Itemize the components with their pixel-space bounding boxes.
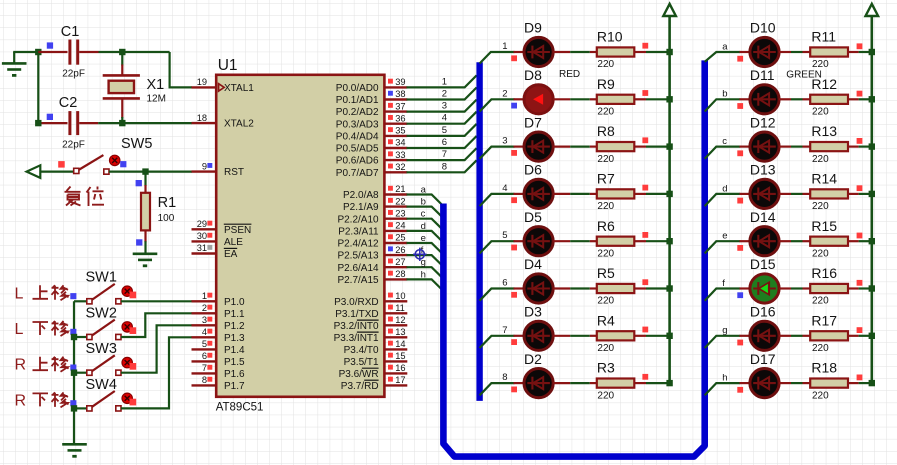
wire <box>634 240 669 242</box>
LED D7 <box>524 114 553 161</box>
svg-text:f: f <box>722 278 725 289</box>
resistor R14 220 <box>810 171 848 213</box>
svg-text:EA: EA <box>224 249 238 260</box>
pin 12 P3.2 <box>384 315 407 325</box>
node label 4 <box>502 183 507 194</box>
LED D5 <box>524 209 553 256</box>
node marker SW3 <box>70 365 76 371</box>
svg-text:220: 220 <box>812 201 829 212</box>
svg-text:8: 8 <box>442 161 447 172</box>
wire power rail left <box>668 16 671 383</box>
svg-text:a: a <box>421 185 427 196</box>
wire <box>121 337 192 408</box>
resistor R15 220 <box>810 218 848 260</box>
svg-text:R8: R8 <box>597 123 615 139</box>
svg-text:D12: D12 <box>750 114 776 130</box>
svg-text:c: c <box>722 136 727 147</box>
node marker D15 <box>737 292 743 298</box>
wire net h (P2.7) <box>407 279 444 291</box>
svg-text:13: 13 <box>395 327 405 337</box>
node junction rail-left <box>666 191 672 197</box>
pin 9 RST <box>192 161 217 171</box>
wire <box>514 240 525 242</box>
svg-text:C2: C2 <box>59 95 78 111</box>
node label 2 <box>502 88 507 99</box>
node junction rail-right <box>869 49 875 55</box>
node label g <box>722 325 727 336</box>
svg-text:e: e <box>722 231 727 242</box>
svg-text:4: 4 <box>202 327 207 337</box>
wire <box>514 51 525 53</box>
capacitor C1 <box>38 24 98 79</box>
pin 18 XTAL2 <box>192 113 217 123</box>
pin 14 P3.4 <box>384 339 407 349</box>
svg-text:c: c <box>421 209 426 220</box>
node junction rail-right <box>869 285 875 291</box>
svg-text:D15: D15 <box>750 256 776 272</box>
svg-text:35: 35 <box>395 126 405 136</box>
svg-text:30: 30 <box>197 231 207 241</box>
svg-text:C1: C1 <box>61 24 80 40</box>
pin 10 P3.0 <box>384 291 407 301</box>
pin 33 P0.6/AD6 <box>384 150 407 160</box>
resistor R9 220 <box>597 76 635 118</box>
svg-text:D3: D3 <box>524 304 542 320</box>
wire <box>779 98 810 100</box>
node label d <box>722 183 727 194</box>
svg-text:D16: D16 <box>750 304 776 320</box>
svg-text:P1.4: P1.4 <box>224 345 245 356</box>
wire <box>98 122 192 124</box>
node label c <box>722 136 727 147</box>
svg-text:29: 29 <box>197 219 207 229</box>
pin 8 P1.7 <box>192 375 217 385</box>
wire bus exit 7 <box>480 336 515 348</box>
node marker R10 <box>642 43 648 49</box>
svg-text:X1: X1 <box>147 77 165 93</box>
wire <box>99 52 193 87</box>
wire net d (P2.3) <box>407 231 444 243</box>
svg-text:32: 32 <box>395 162 405 172</box>
LED D3 <box>524 304 553 351</box>
svg-text:21: 21 <box>395 184 405 194</box>
label L up-move <box>15 285 69 302</box>
node label 7 <box>502 325 507 336</box>
svg-text:b: b <box>421 197 426 208</box>
resistor R6 220 <box>597 218 635 260</box>
wire <box>848 287 872 289</box>
svg-text:1: 1 <box>442 76 447 87</box>
svg-text:34: 34 <box>395 138 405 148</box>
LED D10 <box>750 20 779 67</box>
svg-text:R13: R13 <box>811 123 837 139</box>
svg-text:220: 220 <box>812 154 829 165</box>
resistor R12 220 <box>810 76 848 118</box>
wire bus exit e <box>705 241 741 253</box>
svg-text:R3: R3 <box>597 360 615 376</box>
pin 28 P2.7/A15 <box>384 269 407 279</box>
wire <box>848 382 872 384</box>
wire <box>740 98 751 100</box>
svg-text:28: 28 <box>395 269 405 279</box>
svg-text:RED: RED <box>559 69 580 80</box>
node marker D14 <box>737 245 743 251</box>
wire net 6 (P0.5) <box>407 136 477 148</box>
wire net 3 (P0.2) <box>407 100 477 112</box>
svg-text:18: 18 <box>197 113 207 123</box>
svg-text:R15: R15 <box>811 218 837 234</box>
svg-text:220: 220 <box>597 59 614 70</box>
svg-text:38: 38 <box>395 89 405 99</box>
node label 4 <box>442 113 447 124</box>
svg-text:d: d <box>421 221 426 232</box>
svg-text:P2.7/A15: P2.7/A15 <box>337 275 379 286</box>
svg-text:U1: U1 <box>218 57 238 74</box>
svg-text:2: 2 <box>502 88 507 99</box>
svg-text:5: 5 <box>202 339 207 349</box>
svg-text:9: 9 <box>202 161 207 171</box>
wire bus exit 5 <box>480 241 515 253</box>
resistor R4 220 <box>597 312 635 354</box>
svg-text:P2.2/A10: P2.2/A10 <box>337 214 379 225</box>
node marker R8 <box>642 137 648 143</box>
node junction rail-left <box>666 96 672 102</box>
LED D8 <box>524 67 553 114</box>
node junction C1-left <box>35 42 53 55</box>
node marker R5 <box>642 279 648 285</box>
op-amp U1 AT89C51 body <box>216 57 385 414</box>
pin 6 P1.5 <box>192 351 217 361</box>
wire <box>848 146 872 148</box>
svg-text:P2.0/A8: P2.0/A8 <box>343 190 379 201</box>
wire <box>634 146 669 148</box>
cursor origin marker <box>413 248 426 261</box>
svg-text:P2.1/A9: P2.1/A9 <box>343 202 379 213</box>
node label c <box>421 209 426 220</box>
pin 39 P0.0/AD0 <box>384 77 407 87</box>
resistor R8 220 <box>597 123 635 165</box>
svg-text:1: 1 <box>502 41 507 52</box>
svg-text:P0.7/AD7: P0.7/AD7 <box>336 168 379 179</box>
svg-text:2: 2 <box>202 303 207 313</box>
LED D17 <box>750 351 779 398</box>
resistor R10 220 <box>597 29 635 71</box>
svg-text:22: 22 <box>395 196 405 206</box>
svg-text:26: 26 <box>395 245 405 255</box>
wire bus exit a <box>705 52 741 62</box>
node marker D6 <box>511 197 517 203</box>
svg-text:P2.5/A13: P2.5/A13 <box>337 251 379 262</box>
wire bus exit f <box>705 289 741 301</box>
wire <box>779 240 810 242</box>
svg-text:D9: D9 <box>524 20 542 36</box>
wire bus exit b <box>705 99 741 111</box>
node label a <box>722 41 728 52</box>
svg-text:XTAL1: XTAL1 <box>224 83 254 94</box>
LED D15 <box>750 256 779 303</box>
svg-text:P0.1/AD1: P0.1/AD1 <box>336 95 379 106</box>
switch SW1 <box>74 270 136 304</box>
wire <box>779 51 810 53</box>
label L down-move <box>15 321 69 338</box>
node junction rail <box>71 370 77 376</box>
wire net b (P2.1) <box>407 207 444 219</box>
node label f <box>722 278 725 289</box>
svg-text:D8: D8 <box>524 67 542 83</box>
svg-text:D17: D17 <box>750 351 776 367</box>
crystal X1 12M <box>103 52 166 123</box>
svg-text:220: 220 <box>597 248 614 259</box>
svg-text:220: 220 <box>812 343 829 354</box>
capacitor C2 <box>38 95 98 150</box>
pin 31 EA <box>192 243 217 253</box>
node label 5 <box>502 230 507 241</box>
node marker R12 <box>857 91 863 97</box>
wire <box>553 193 597 195</box>
wire <box>779 335 810 337</box>
svg-text:R11: R11 <box>811 29 836 45</box>
ground (below switches) <box>62 444 87 456</box>
node junction rail <box>71 405 77 411</box>
pin 13 P3.3 <box>384 327 407 337</box>
svg-text:8: 8 <box>202 375 207 385</box>
pin 19 XTAL1 <box>192 77 217 87</box>
wire net g (P2.6) <box>407 267 444 279</box>
wire bus exit 8 <box>480 383 515 395</box>
wire net 1 (P0.0) <box>407 75 477 87</box>
svg-text:36: 36 <box>395 113 405 123</box>
node marker R13 <box>857 138 863 144</box>
node marker D5 <box>511 245 517 251</box>
LED D9 <box>524 20 553 67</box>
svg-text:37: 37 <box>395 101 405 111</box>
svg-text:4: 4 <box>502 183 507 194</box>
LED D12 <box>750 114 779 161</box>
svg-text:12: 12 <box>395 315 405 325</box>
resistor R1 100 <box>136 172 177 246</box>
svg-text:D7: D7 <box>524 114 542 130</box>
svg-text:R10: R10 <box>597 29 623 45</box>
svg-text:e: e <box>421 233 426 244</box>
wire net 7 (P0.6) <box>407 148 477 160</box>
svg-text:22pF: 22pF <box>62 68 85 79</box>
wire <box>634 193 669 195</box>
svg-text:220: 220 <box>597 390 614 401</box>
wire <box>514 335 525 337</box>
svg-text:1: 1 <box>202 291 207 301</box>
svg-text:D5: D5 <box>524 209 542 225</box>
svg-text:5: 5 <box>502 230 507 241</box>
LED D6 <box>524 162 553 209</box>
svg-text:R: R <box>15 392 27 409</box>
LED D14 <box>750 209 779 256</box>
wire <box>779 382 810 384</box>
svg-text:P0.5/AD5: P0.5/AD5 <box>336 144 379 155</box>
svg-text:10: 10 <box>395 291 405 301</box>
svg-text:D2: D2 <box>524 351 542 367</box>
pin names (left) <box>224 83 254 392</box>
svg-text:R4: R4 <box>597 312 615 328</box>
label RED <box>559 69 580 80</box>
ground (top-left) <box>2 52 27 75</box>
svg-text:4: 4 <box>442 113 447 124</box>
node junction rail-right <box>869 333 875 339</box>
wire bus exit 3 <box>480 147 515 159</box>
node marker R17 <box>857 327 863 333</box>
svg-text:220: 220 <box>597 154 614 165</box>
node junction rail-left <box>666 238 672 244</box>
node marker D2 <box>511 387 517 393</box>
svg-text:23: 23 <box>395 208 405 218</box>
svg-text:19: 19 <box>197 77 207 87</box>
pin 35 P0.4/AD4 <box>384 126 407 136</box>
svg-text:P3.1/TXD: P3.1/TXD <box>335 309 378 320</box>
wire <box>634 287 669 289</box>
wire <box>848 193 872 195</box>
svg-text:R18: R18 <box>811 360 837 376</box>
wire net e (P2.4) <box>407 243 444 255</box>
svg-text:17: 17 <box>395 375 405 385</box>
svg-text:R17: R17 <box>811 312 837 328</box>
svg-text:6: 6 <box>442 137 447 148</box>
svg-text:D4: D4 <box>524 256 542 272</box>
wire net 4 (P0.3) <box>407 112 477 124</box>
switch SW3 <box>74 341 136 375</box>
svg-text:XTAL2: XTAL2 <box>224 119 254 130</box>
svg-text:P1.2: P1.2 <box>224 321 245 332</box>
node label a <box>421 185 427 196</box>
svg-text:220: 220 <box>597 343 614 354</box>
node marker D16 <box>737 340 743 346</box>
svg-text:R7: R7 <box>597 171 615 187</box>
wire bus exit d <box>705 194 741 206</box>
svg-text:R12: R12 <box>811 76 837 92</box>
label GREEN <box>786 70 822 81</box>
svg-text:P0.0/AD0: P0.0/AD0 <box>336 83 379 94</box>
svg-text:b: b <box>722 89 727 100</box>
node marker R14 <box>857 185 863 191</box>
pin 4 P1.3 <box>192 327 217 337</box>
LED D13 <box>750 162 779 209</box>
node junction rail-right <box>869 380 875 386</box>
wire bus exit g <box>705 336 741 348</box>
svg-text:16: 16 <box>395 363 405 373</box>
wire <box>514 382 525 384</box>
svg-text:220: 220 <box>597 107 614 118</box>
node label 6 <box>442 137 447 148</box>
wire <box>740 382 751 384</box>
pin 32 P0.7/AD7 <box>384 162 407 172</box>
ground (below R1) <box>133 254 158 266</box>
resistor R16 220 <box>810 265 848 307</box>
wire power rail right <box>870 16 873 383</box>
node junction rail <box>71 334 77 340</box>
node marker D17 <box>737 387 743 393</box>
svg-text:P0.6/AD6: P0.6/AD6 <box>336 156 379 167</box>
node junction RST/R1 <box>142 168 148 174</box>
svg-text:6: 6 <box>502 278 507 289</box>
node marker SW2 <box>70 329 76 335</box>
node junction rail-left <box>666 333 672 339</box>
svg-text:P1.6: P1.6 <box>224 369 245 380</box>
svg-text:3: 3 <box>202 315 207 325</box>
svg-text:R1: R1 <box>158 195 177 211</box>
node marker SW1 <box>70 293 76 299</box>
svg-text:P1.1: P1.1 <box>224 309 245 320</box>
wire <box>740 240 751 242</box>
wire <box>121 325 192 372</box>
node label 5 <box>442 125 447 136</box>
wire <box>634 382 669 384</box>
pin 22 P2.1/A9 <box>384 196 407 206</box>
node marker R11 <box>857 43 863 49</box>
wire <box>121 300 192 302</box>
svg-text:P3.5/T1: P3.5/T1 <box>344 357 379 368</box>
pin names (right) <box>334 83 379 392</box>
svg-text:5: 5 <box>442 125 447 136</box>
svg-text:d: d <box>722 183 727 194</box>
svg-text:27: 27 <box>395 257 405 267</box>
svg-text:R: R <box>15 357 27 374</box>
svg-text:15: 15 <box>395 351 405 361</box>
wire <box>553 287 597 289</box>
svg-text:220: 220 <box>812 296 829 307</box>
pin 37 P0.2/AD2 <box>384 101 407 111</box>
svg-text:AT89C51: AT89C51 <box>216 402 264 414</box>
resistor R17 220 <box>810 312 848 354</box>
svg-text:P0.4/AD4: P0.4/AD4 <box>336 132 379 143</box>
svg-text:h: h <box>421 269 426 280</box>
node marker D11 <box>737 103 743 109</box>
svg-text:12M: 12M <box>147 94 166 105</box>
svg-text:P1.0: P1.0 <box>224 297 245 308</box>
wire <box>553 98 597 100</box>
node label f <box>421 245 424 256</box>
svg-text:P2.3/A11: P2.3/A11 <box>338 227 379 238</box>
wire <box>848 335 872 337</box>
node label e <box>722 231 727 242</box>
resistor R13 220 <box>810 123 848 165</box>
pin 29 PSEN <box>192 219 217 229</box>
svg-text:P0.3/AD3: P0.3/AD3 <box>336 119 379 130</box>
svg-text:R5: R5 <box>597 265 615 281</box>
svg-text:h: h <box>722 373 727 384</box>
wire bus exit 6 <box>480 289 515 301</box>
node label d <box>421 221 426 232</box>
pin XTAL1 clock indicator <box>219 84 225 91</box>
pin 2 P1.1 <box>192 303 217 313</box>
pin 21 P2.0/A8 <box>384 184 407 194</box>
label R up-move <box>15 357 69 374</box>
svg-text:39: 39 <box>395 77 405 87</box>
svg-text:220: 220 <box>812 390 829 401</box>
pin 15 P3.5 <box>384 351 407 361</box>
svg-text:33: 33 <box>395 150 405 160</box>
wire <box>848 98 872 100</box>
node label h <box>722 373 727 384</box>
svg-text:P3.0/RXD: P3.0/RXD <box>334 297 378 308</box>
wire <box>848 51 872 53</box>
wire net 5 (P0.4) <box>407 124 477 136</box>
node label 7 <box>442 149 447 160</box>
label R down-move <box>15 392 69 409</box>
svg-text:P3.2/INT0: P3.2/INT0 <box>334 321 379 332</box>
pin 5 P1.4 <box>192 339 217 349</box>
LED D4 <box>524 256 553 303</box>
svg-text:R9: R9 <box>597 76 615 92</box>
svg-text:ALE: ALE <box>224 237 243 248</box>
pin 38 P0.1/AD1 <box>384 89 407 99</box>
